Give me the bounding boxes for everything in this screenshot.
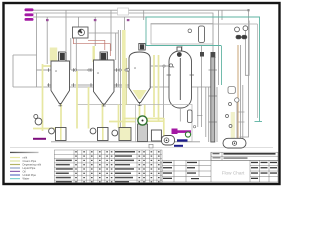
wire: right area verticals [245, 21, 249, 76]
svg-text:a: a [134, 66, 136, 70]
wire: drop at x36.5 [36, 13, 38, 87]
instrument pair IT1 [235, 26, 248, 39]
legend rows [10, 158, 20, 179]
vessel T2 flange ticks [91, 68, 117, 87]
small column K2 [188, 110, 193, 123]
svg-text:Oil: Oil [23, 169, 27, 173]
wire: inter-vessel pipe v3-v4 [151, 65, 169, 67]
wire: drop at x66 [65, 10, 67, 51]
svg-text:milk: milk [23, 156, 28, 160]
wire: left boundary riser [12, 55, 14, 87]
svg-text:Cream Pipe: Cream Pipe [23, 159, 37, 163]
wire: inter-vessel pipe v2-v3 upper [114, 69, 130, 71]
wire: light bottom boundary [10, 146, 273, 148]
pipe: brown line right [237, 45, 239, 140]
wire: homogenizer header [77, 104, 136, 106]
CIP inner gray box [151, 24, 213, 45]
CIP cylinder [199, 26, 205, 43]
valve dots on header [46, 19, 129, 21]
wire: drop at x112 [110, 10, 112, 51]
navy bar B1 [177, 139, 188, 141]
column K1 cap and valve [211, 52, 216, 58]
title block text [163, 153, 277, 179]
wire: drop at x95 [94, 17, 96, 46]
pipe: yellow process lines [33, 30, 233, 139]
manifold M1 (magenta header) [25, 8, 34, 20]
pipe: red lines near valve station [74, 38, 111, 56]
wire: top header line A [33, 10, 249, 137]
wire: baseline floor [51, 141, 200, 143]
vessel T3 port [126, 68, 129, 71]
pump P5 [151, 130, 161, 141]
pump P4 (green) [138, 124, 148, 142]
vessel T3 (dome top, cone bottom) [129, 44, 150, 107]
pump P2 [90, 128, 108, 141]
cone tip flange ticks [58, 104, 141, 107]
outer border frame [4, 3, 280, 184]
wire: vessel1 left stub [37, 69, 52, 71]
wire: top header line B [33, 13, 213, 57]
wire: teal drop from cip box [221, 46, 223, 86]
label box on header [118, 8, 129, 15]
vessel T2 (cone bottom tank) [94, 52, 115, 107]
purple bar bottom-left [33, 138, 46, 140]
vessel T1 flange ticks [49, 68, 74, 87]
wire: column side pipes [205, 87, 207, 137]
svg-text:Degreasing milk: Degreasing milk [23, 163, 42, 167]
parts list text [56, 151, 160, 183]
svg-text:Liquid Pipe: Liquid Pipe [23, 166, 36, 170]
column K1 (tall narrow) [211, 57, 215, 142]
small fitting on boundary line [149, 144, 153, 148]
svg-text:Unfold Pipe: Unfold Pipe [23, 173, 37, 177]
svg-text:Flow Chart: Flow Chart [222, 170, 245, 175]
wire: drop at x47 [46, 17, 48, 64]
wire: inter-vessel pipe v1-v2 lower [71, 84, 94, 86]
pump P1 [49, 128, 66, 141]
wire: drop to holding tank [163, 66, 165, 136]
vessel T4 port [169, 64, 172, 67]
wire: verticals between vessel2 and vessel3 [117, 30, 119, 87]
parts list table [54, 150, 162, 183]
pump P6 (oval right) [223, 138, 246, 148]
wire: inter-vessel pipe v1-v2 upper [71, 69, 94, 71]
vessel T4 (capsule) [169, 47, 192, 122]
wire: drop at x78 [77, 17, 79, 27]
wire: drop at x143.7 [143, 10, 145, 20]
wire: drop at x124.9 [124, 17, 126, 87]
CIP box (teal) [146, 17, 262, 122]
valve station U1 (box with circle) [71, 27, 119, 70]
pump P0 (left) [35, 118, 42, 125]
separator S1 (magenta) [172, 129, 178, 135]
tank H1 (horizontal) [162, 136, 175, 146]
navy bar B2 [174, 145, 183, 147]
pump P3 [112, 128, 131, 141]
svg-text:a: a [97, 71, 99, 75]
FO box [228, 87, 235, 94]
CIP circle [188, 29, 192, 33]
wire: long horizontal main header [13, 86, 211, 88]
svg-text:Water: Water [23, 177, 30, 181]
vessel T4 flange ticks [167, 74, 195, 76]
svg-text:a: a [55, 69, 57, 73]
vessel T1 (cone bottom tank) [51, 52, 70, 107]
wire: inter-vessel pipe v2-v3 lower [114, 84, 129, 86]
right pipe ticks [239, 112, 245, 122]
flange circle at column [193, 126, 195, 128]
inter-vessel flanges [74, 65, 165, 71]
right column flanges [235, 98, 239, 102]
title block [162, 152, 278, 182]
unit box around homogenizer [136, 105, 193, 142]
